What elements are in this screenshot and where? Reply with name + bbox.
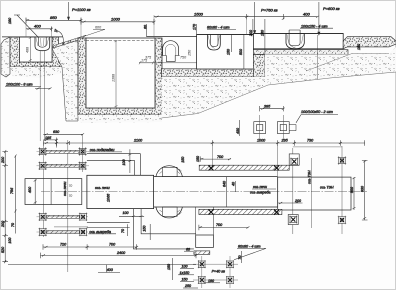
svg-text:150: 150: [227, 49, 231, 55]
left tub soil mass: [1, 37, 10, 77]
svg-text:700: 700: [109, 243, 116, 247]
svg-text:200: 200: [1, 220, 5, 228]
plan centerline vertical left (furnace axis): [67, 140, 69, 272]
svg-text:200: 200: [294, 199, 301, 203]
strip (furnace channel): [154, 177, 278, 207]
dim 1500 row right: [154, 14, 248, 19]
bottom-left bolts: [39, 213, 47, 221]
svg-text:1000: 1000: [111, 16, 121, 21]
dim 700 above right rail: [200, 156, 231, 161]
bottom-left rail 1: [47, 215, 80, 218]
small bolts bottom middle: [198, 260, 206, 268]
left tub ground line: [2, 36, 63, 38]
svg-text:100: 100: [122, 160, 126, 166]
svg-text:60: 60: [144, 25, 148, 29]
svg-text:150: 150: [167, 264, 171, 270]
svg-text:80х80 - 4 шт: 80х80 - 4 шт: [238, 244, 261, 248]
top-left rail 2: [46, 164, 80, 167]
bottom bulge: [156, 207, 183, 218]
dim 850: [26, 18, 83, 24]
svg-text:750: 750: [180, 55, 187, 59]
dim 630: [43, 133, 84, 135]
dark bar under pedestal: [194, 251, 210, 255]
svg-text:400: 400: [34, 23, 41, 28]
svg-text:70: 70: [238, 256, 242, 260]
plan horizontal centerline: [41, 191, 367, 193]
svg-text:1300: 1300: [112, 74, 116, 82]
svg-text:100х100 - 8 шт: 100х100 - 8 шт: [6, 83, 33, 87]
svg-text:190: 190: [208, 279, 214, 283]
right rail bottom: [199, 209, 282, 214]
svg-text:850: 850: [50, 15, 57, 20]
svg-text:70: 70: [121, 229, 125, 233]
svg-text:100/100х50 - 2 шт: 100/100х50 - 2 шт: [301, 110, 333, 114]
big furnace rectangle: [87, 175, 154, 208]
small plates pair above plan: [254, 115, 296, 140]
svg-text:185: 185: [45, 136, 52, 140]
svg-text:100: 100: [123, 211, 129, 215]
svg-text:1000: 1000: [257, 139, 266, 143]
soil below left tub: [10, 67, 68, 78]
svg-text:796: 796: [10, 187, 14, 194]
svg-text:40: 40: [232, 182, 236, 186]
big pit concrete walls: [78, 38, 162, 115]
svg-text:100: 100: [8, 238, 12, 244]
svg-text:500: 500: [350, 187, 354, 193]
platform slab right of pit: [162, 69, 254, 77]
svg-text:ось подкладки: ось подкладки: [90, 148, 115, 152]
left tub cavity outline: [20, 37, 53, 62]
left inner rectangle: [25, 179, 82, 205]
far right bolts: [338, 156, 346, 164]
svg-text:720: 720: [60, 243, 67, 247]
top-left rail 1: [46, 150, 80, 153]
dim 420 vertical in tub: [29, 37, 32, 62]
left vertical chain 200|796|200|520: [2, 151, 8, 261]
dim 1300 inside pit: [115, 41, 118, 109]
bolts on right rails: [209, 166, 214, 171]
soil under big pit: [78, 115, 162, 123]
svg-text:160: 160: [261, 30, 265, 36]
force arrow P=1100: [67, 2, 69, 20]
left tub concrete walls: [10, 37, 63, 67]
big pit cavity: [86, 38, 155, 108]
slab under chamber box 2: [253, 50, 348, 55]
bottom long line: [8, 264, 196, 266]
svg-text:60: 60: [186, 247, 190, 251]
svg-text:520: 520: [1, 246, 5, 253]
wedge of soil between tub and pit: [52, 35, 86, 48]
bottom chain 720|700: [43, 244, 137, 250]
svg-text:500: 500: [239, 49, 243, 55]
dim 400 top-left: [26, 26, 53, 31]
lower chute side lines from rails: [87, 223, 130, 228]
top-left bolts: [38, 147, 46, 155]
svg-text:250: 250: [184, 284, 191, 288]
svg-text:400: 400: [28, 186, 32, 193]
bottom-left rail 2: [47, 231, 80, 234]
svg-text:ось печи: ось печи: [63, 182, 67, 196]
svg-text:150: 150: [357, 44, 361, 50]
dim line 750/375 under pipe: [139, 62, 197, 64]
channel 80x80 in chamber1: [207, 35, 220, 51]
channel 100x100 in left tub: [35, 37, 50, 51]
svg-text:ось ТЭН: ось ТЭН: [308, 170, 312, 184]
svg-text:235: 235: [281, 139, 289, 143]
svg-text:ось выгреба: ось выгреба: [89, 230, 111, 234]
svg-text:180: 180: [8, 17, 12, 24]
svg-text:ось печи: ось печи: [253, 185, 267, 189]
svg-text:2400: 2400: [116, 251, 126, 255]
dim 175 inside pit: [139, 61, 155, 64]
leader lines from channel down to plan: [39, 51, 41, 141]
svg-text:400: 400: [107, 268, 114, 272]
svg-text:700: 700: [216, 223, 223, 227]
dim 400 top right: [247, 14, 319, 20]
dim 1000: [81, 19, 156, 25]
svg-text:600: 600: [95, 26, 102, 30]
svg-text:P=600 кг: P=600 кг: [323, 6, 340, 11]
top bulge: [156, 166, 183, 177]
svg-text:P=40 кг: P=40 кг: [212, 270, 225, 274]
dim 385 plates: [260, 106, 285, 111]
svg-text:400: 400: [26, 47, 30, 53]
svg-text:1500: 1500: [194, 11, 204, 16]
soil slope below right: [162, 47, 396, 118]
floor edge line right part of pit mouth: [146, 36, 196, 38]
svg-text:170: 170: [193, 24, 197, 30]
dim 400 in inner rect: [34, 179, 37, 204]
svg-text:700: 700: [217, 155, 224, 159]
svg-text:375: 375: [145, 55, 152, 59]
svg-text:150: 150: [196, 156, 200, 162]
svg-text:150: 150: [182, 278, 188, 282]
upper chute from rails to furnace: [87, 154, 140, 176]
dim 730 right top: [293, 146, 342, 148]
svg-text:P=760 кг: P=760 кг: [261, 8, 278, 13]
force arrow P=760: [254, 2, 256, 34]
svg-text:400: 400: [303, 11, 310, 16]
bottom chain 2400: [41, 253, 198, 259]
plan centerline right bolt col 2: [341, 146, 343, 234]
dim 200 mid right: [278, 202, 303, 204]
mushroom pipe on platform: [162, 41, 180, 62]
svg-text:1х150: 1х150: [180, 271, 190, 275]
chamber box 2: [253, 34, 343, 49]
plan centerline right bolt col 1: [292, 148, 294, 234]
svg-text:150: 150: [143, 226, 147, 232]
top chain 185|2100|1000|235|730: [43, 140, 364, 146]
force arrow P=600: [318, 2, 320, 35]
dims right: 500, 930: [353, 177, 356, 210]
svg-text:385: 385: [264, 104, 271, 108]
svg-text:100: 100: [182, 264, 188, 268]
chamber box 1: [197, 35, 254, 70]
svg-text:150: 150: [188, 49, 192, 56]
svg-text:200: 200: [249, 30, 253, 37]
wall between chambers: [253, 54, 265, 77]
svg-text:630: 630: [53, 130, 60, 134]
svg-text:2100: 2100: [133, 139, 143, 143]
svg-text:930: 930: [361, 186, 365, 192]
svg-text:150: 150: [181, 157, 185, 163]
svg-text:640: 640: [223, 181, 227, 187]
channel 100x150 in chamber2: [286, 30, 304, 49]
extension lines of top dims: [26, 15, 247, 38]
svg-text:70: 70: [11, 223, 15, 227]
leader down from P600: [317, 35, 319, 79]
lower chute from furnace to pit: [133, 209, 195, 249]
raised ground right of chamber2: [343, 37, 396, 49]
svg-text:200: 200: [1, 156, 5, 164]
seam arrow left tub: [58, 31, 65, 45]
svg-text:730: 730: [307, 139, 314, 143]
svg-text:70: 70: [69, 194, 73, 198]
dim 185 top: [43, 138, 69, 148]
ground line middle: [197, 34, 344, 35]
svg-text:ось выгреба: ось выгреба: [250, 191, 270, 195]
ТЭН zone rectangle: [278, 177, 351, 210]
svg-text:ось ТЭН: ось ТЭН: [320, 186, 334, 190]
svg-text:80х80 - 4 шт: 80х80 - 4 шт: [207, 26, 230, 30]
svg-text:P=1100 кг: P=1100 кг: [72, 7, 91, 12]
svg-text:70: 70: [69, 184, 73, 188]
svg-text:1066: 1066: [107, 193, 111, 202]
right rail end plates: [289, 154, 299, 165]
dashed line across pit top: [86, 40, 155, 42]
right rail top: [199, 165, 289, 170]
pedestal below strip: [196, 235, 214, 247]
svg-text:100х150 - 4 шт: 100х150 - 4 шт: [301, 24, 328, 28]
svg-text:ось печи: ось печи: [95, 186, 110, 190]
